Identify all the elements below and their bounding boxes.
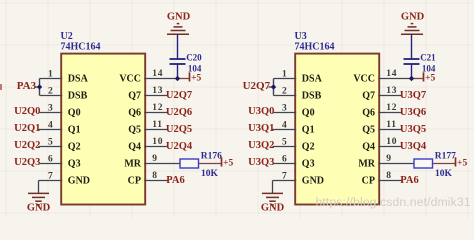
svg-text:VCC: VCC <box>353 74 375 85</box>
svg-text:+5: +5 <box>457 158 467 168</box>
svg-text:https://blog.csdn.net/dmik31: https://blog.csdn.net/dmik31 <box>316 195 471 209</box>
svg-text:U2Q7: U2Q7 <box>243 80 271 92</box>
svg-text:Q7: Q7 <box>362 91 375 102</box>
svg-text:U2Q7: U2Q7 <box>166 90 192 101</box>
svg-text:DSA: DSA <box>68 74 89 85</box>
svg-text:9: 9 <box>386 154 391 164</box>
power +5 at VCC <box>190 72 202 83</box>
svg-text:U2Q3: U2Q3 <box>14 157 40 168</box>
svg-text:Q4: Q4 <box>128 142 141 153</box>
wire ground to C21 <box>411 35 413 59</box>
svg-text:Q1: Q1 <box>302 125 315 136</box>
wire pin 9 MR <box>144 163 180 165</box>
ground at pin 7 <box>27 181 51 214</box>
svg-text:12: 12 <box>152 103 163 113</box>
wire pin 11 <box>378 129 401 131</box>
svg-text:Q6: Q6 <box>362 108 375 119</box>
svg-text:U2Q2: U2Q2 <box>14 140 40 151</box>
wire C21 to VCC rail <box>411 65 413 79</box>
wire pin 6 <box>39 163 63 165</box>
svg-text:U3Q4: U3Q4 <box>400 141 427 152</box>
svg-text:74HC164: 74HC164 <box>61 42 101 53</box>
svg-text:GND: GND <box>68 176 90 187</box>
svg-text:CP: CP <box>362 176 375 187</box>
svg-text:U2Q5: U2Q5 <box>166 124 192 135</box>
ground above C20 <box>167 11 191 34</box>
svg-text:PA3: PA3 <box>17 80 37 92</box>
wire vertical tie pins 1-2 <box>273 79 275 96</box>
IC U2 pin numbers <box>48 69 163 181</box>
svg-text:U2Q1: U2Q1 <box>14 123 40 134</box>
power +5 at MR pull-up <box>222 157 234 168</box>
svg-text:U3Q2: U3Q2 <box>248 140 274 151</box>
svg-text:Q3: Q3 <box>68 159 81 170</box>
svg-text:U2: U2 <box>61 31 73 42</box>
svg-text:Q7: Q7 <box>128 91 141 102</box>
wire ground to C20 <box>177 35 179 59</box>
wire pin 14 VCC <box>144 78 177 80</box>
wire pin 6 <box>273 163 297 165</box>
svg-text:GND: GND <box>167 11 191 22</box>
wire pin 13 <box>144 95 167 97</box>
svg-text:Q4: Q4 <box>362 142 375 153</box>
svg-text:Q5: Q5 <box>362 125 375 136</box>
svg-text:Q1: Q1 <box>68 125 81 136</box>
svg-text:U3Q6: U3Q6 <box>400 107 426 118</box>
wire pin 8 CP <box>144 180 168 182</box>
svg-text:74HC164: 74HC164 <box>295 42 335 53</box>
svg-text:13: 13 <box>386 86 397 96</box>
svg-text:C21: C21 <box>420 53 436 63</box>
svg-text:+5: +5 <box>223 158 233 168</box>
wire pin 4 <box>273 129 297 131</box>
svg-text:U3: U3 <box>295 31 307 42</box>
wire vertical tie pins 1-2 <box>39 79 41 96</box>
svg-text:U3Q7: U3Q7 <box>400 90 426 101</box>
ground at pin 7 <box>261 181 285 214</box>
svg-text:R176: R176 <box>201 152 222 162</box>
svg-text:Q6: Q6 <box>128 108 141 119</box>
svg-text:U2Q6: U2Q6 <box>166 107 192 118</box>
svg-text:8: 8 <box>152 171 157 181</box>
wire pin 7 GND <box>39 180 63 182</box>
svg-text:VCC: VCC <box>119 74 141 85</box>
svg-text:12: 12 <box>386 103 397 113</box>
svg-text:U2Q0: U2Q0 <box>14 106 40 117</box>
wire pin 7 GND <box>273 180 297 182</box>
power +5 at MR pull-up <box>456 157 468 168</box>
wire pin 8 CP <box>378 180 402 182</box>
wire pin 1 DSA <box>40 78 63 80</box>
svg-text:C20: C20 <box>186 53 202 63</box>
svg-text:13: 13 <box>152 86 163 96</box>
svg-text:Q3: Q3 <box>302 159 315 170</box>
svg-text:U3Q3: U3Q3 <box>248 157 274 168</box>
svg-text:Q5: Q5 <box>128 125 141 136</box>
svg-text:14: 14 <box>386 69 397 79</box>
IC U2 74HC164 body <box>61 54 145 205</box>
wire pin 12 <box>144 112 167 114</box>
wire stub to input junction <box>269 86 274 88</box>
power +5 at VCC <box>424 72 436 83</box>
svg-text:PA6: PA6 <box>400 175 418 186</box>
capacitor C20 104 <box>170 53 203 74</box>
svg-text:8: 8 <box>386 171 391 181</box>
wire VCC to +5 port <box>412 78 423 80</box>
svg-text:10: 10 <box>386 137 397 147</box>
svg-text:Q0: Q0 <box>302 108 315 119</box>
svg-text:MR: MR <box>124 159 141 170</box>
svg-text:GND: GND <box>401 11 425 22</box>
wire C20 to VCC rail <box>177 65 179 79</box>
svg-text:DSB: DSB <box>302 91 322 102</box>
resistor R177 10K <box>414 152 456 180</box>
svg-text:U2Q4: U2Q4 <box>166 141 193 152</box>
svg-text:104: 104 <box>422 63 436 73</box>
svg-text:+5: +5 <box>191 73 201 83</box>
svg-text:R177: R177 <box>435 152 456 162</box>
capacitor C21 104 <box>404 53 437 74</box>
svg-text:GND: GND <box>27 203 51 214</box>
junction on input tie <box>271 84 276 89</box>
svg-text:U3Q1: U3Q1 <box>248 123 274 134</box>
svg-text:U3Q0: U3Q0 <box>248 106 274 117</box>
svg-text:9: 9 <box>152 154 157 164</box>
node fragment at left image edge <box>0 84 2 90</box>
wire R177 to +5 port <box>433 163 456 165</box>
junction VCC rail <box>409 76 414 81</box>
wire pin 5 <box>39 146 63 148</box>
wire pin 13 <box>378 95 401 97</box>
svg-text:GND: GND <box>261 203 285 214</box>
svg-text:11: 11 <box>152 120 162 130</box>
wire pin 2 DSB <box>274 95 297 97</box>
wire pin 10 <box>378 146 401 148</box>
wire pin 5 <box>273 146 297 148</box>
svg-text:14: 14 <box>152 69 163 79</box>
wire VCC to +5 port <box>178 78 189 80</box>
svg-text:10: 10 <box>152 137 163 147</box>
svg-text:11: 11 <box>386 120 396 130</box>
resistor R176 10K <box>180 152 222 180</box>
IC U3 74HC164 body <box>295 54 379 205</box>
svg-text:104: 104 <box>188 63 202 73</box>
wire R176 to +5 port <box>199 163 222 165</box>
junction VCC rail <box>175 76 180 81</box>
svg-text:+5: +5 <box>425 73 435 83</box>
wire pin 9 MR <box>378 163 414 165</box>
ground above C21 <box>401 11 425 34</box>
wire pin 10 <box>144 146 167 148</box>
svg-text:DSA: DSA <box>302 74 323 85</box>
svg-text:10K: 10K <box>201 169 219 179</box>
wire pin 11 <box>144 129 167 131</box>
svg-text:MR: MR <box>358 159 375 170</box>
svg-text:Q0: Q0 <box>68 108 81 119</box>
wire pin 1 DSA <box>274 78 297 80</box>
svg-text:Q2: Q2 <box>68 142 81 153</box>
wire pin 4 <box>39 129 63 131</box>
svg-text:10K: 10K <box>435 169 453 179</box>
svg-text:GND: GND <box>302 176 324 187</box>
wire pin 3 <box>273 112 297 114</box>
junction on input tie <box>37 84 42 89</box>
wire pin 12 <box>378 112 401 114</box>
svg-text:PA6: PA6 <box>166 175 184 186</box>
wire pin 3 <box>39 112 63 114</box>
IC U3 pin numbers <box>282 69 397 181</box>
svg-text:CP: CP <box>128 176 141 187</box>
wire pin 14 VCC <box>378 78 411 80</box>
svg-text:U3Q5: U3Q5 <box>400 124 426 135</box>
wire stub to input junction <box>35 86 40 88</box>
svg-text:Q2: Q2 <box>302 142 315 153</box>
svg-text:DSB: DSB <box>68 91 88 102</box>
wire pin 2 DSB <box>40 95 63 97</box>
